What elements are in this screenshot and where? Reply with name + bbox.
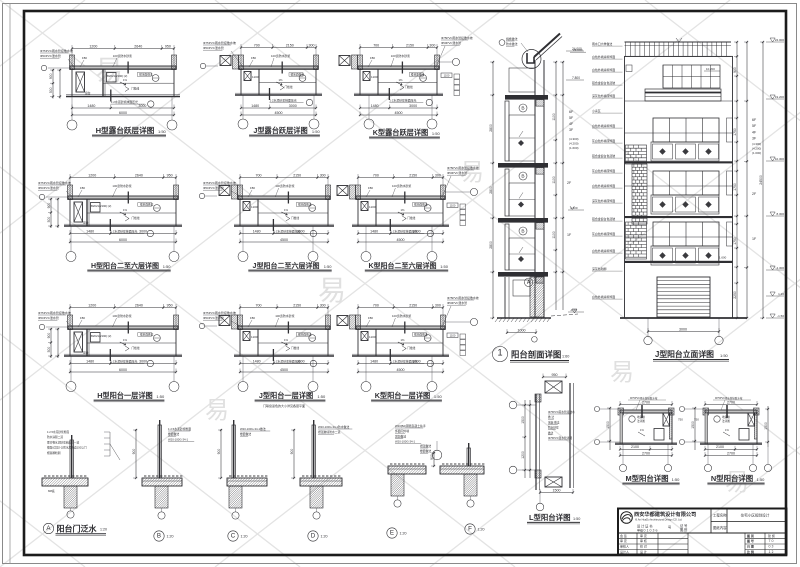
svg-text:防水涂膜二道: 防水涂膜二道	[47, 435, 63, 439]
section cut mark top	[404, 322, 406, 334]
balcony front edge	[64, 355, 182, 357]
svg-text:1%: 1%	[399, 78, 404, 82]
svg-text:门槛线: 门槛线	[132, 216, 140, 220]
svg-text:900: 900	[217, 449, 221, 455]
bottom table	[618, 538, 688, 540]
svg-text:门槛线: 门槛线	[407, 216, 415, 220]
drip note	[400, 85, 404, 90]
main wall	[534, 60, 536, 318]
section cut mark bottom	[389, 219, 391, 231]
axis circle D	[316, 508, 318, 512]
bottom dim 1000	[507, 332, 536, 334]
floor slab F	[440, 466, 484, 474]
svg-text:深灰色外墙砖饰面: 深灰色外墙砖饰面	[592, 93, 615, 98]
svg-text:易: 易	[610, 359, 634, 386]
plan detail L型阳台详图	[509, 373, 580, 524]
wall top band	[239, 66, 318, 69]
svg-text:楼地面做法: 楼地面做法	[139, 73, 153, 77]
svg-text:2800: 2800	[489, 186, 493, 194]
svg-text:审 定: 审 定	[640, 533, 647, 538]
top dim	[705, 404, 757, 406]
elevation J型阳台立面详图	[592, 38, 784, 361]
svg-text:1100: 1100	[450, 204, 456, 208]
svg-text:1100: 1100	[450, 334, 456, 338]
svg-text:300: 300	[309, 43, 315, 47]
svg-text:-1.50: -1.50	[777, 314, 784, 318]
section cut mark bottom	[109, 349, 111, 361]
axis bubble	[532, 337, 538, 343]
window x-box small	[244, 72, 251, 81]
svg-text:(1.600): (1.600)	[569, 146, 579, 150]
svg-text:B2021(2190):(2): B2021(2190):(2)	[91, 334, 111, 338]
box ladder right	[447, 333, 458, 338]
corridor right wall	[569, 383, 571, 488]
wall corner hatch right	[326, 315, 331, 330]
svg-text:1.600: 1.600	[719, 256, 727, 260]
eave detail circle	[522, 50, 541, 69]
svg-text:6000: 6000	[119, 368, 127, 372]
svg-text:1500: 1500	[764, 422, 768, 430]
dimension line bottom overall	[240, 241, 328, 243]
svg-text:1200: 1200	[88, 303, 96, 307]
svg-text:白色外墙涂料饰面: 白色外墙涂料饰面	[592, 183, 615, 188]
svg-text:W20-100G-34-1: W20-100G-34-1	[168, 437, 188, 441]
door post A	[70, 440, 73, 478]
wall top band	[68, 196, 178, 199]
top wall band	[620, 410, 672, 413]
svg-text:易: 易	[95, 55, 123, 86]
svg-text:灰白色外墙砖饰面: 灰白色外墙砖饰面	[592, 138, 615, 143]
section cut mark bottom	[272, 219, 274, 231]
svg-text:24.000: 24.000	[775, 38, 785, 42]
front edge	[700, 443, 762, 445]
company logo	[621, 512, 633, 524]
axis circle E	[397, 496, 399, 500]
label B	[154, 531, 164, 541]
slope arrow	[638, 432, 645, 436]
vertical dividers top	[710, 509, 712, 534]
top dim boxes	[543, 376, 566, 378]
wall corner hatch left	[358, 55, 363, 70]
left vertical dim MN	[609, 408, 611, 450]
wall below C	[229, 486, 242, 508]
svg-text:聚合物水泥砂浆粘结层一道: 聚合物水泥砂浆粘结层一道	[47, 440, 80, 444]
svg-text:2100: 2100	[716, 445, 724, 449]
svg-text:1:2水泥砂浆抹面压光: 1:2水泥砂浆抹面压光	[110, 229, 137, 234]
bottom dim L	[540, 492, 573, 494]
svg-text:7.800: 7.800	[572, 76, 580, 80]
svg-text:图 别: 图 别	[747, 533, 754, 538]
section cut mark top	[281, 62, 283, 74]
svg-text:做法: 做法	[548, 431, 554, 435]
svg-text:(1.600): (1.600)	[752, 151, 761, 155]
svg-text:1100: 1100	[252, 75, 259, 79]
axis bubble bottom-right	[171, 97, 173, 121]
ground line dashed right	[551, 314, 578, 316]
window x small	[663, 413, 670, 426]
sill band	[651, 246, 719, 265]
svg-text:100宽防水砂浆: 100宽防水砂浆	[113, 53, 132, 58]
dimension line bottom overall	[70, 241, 176, 243]
svg-text:楼面做法: 楼面做法	[420, 449, 431, 453]
svg-text:门槛线: 门槛线	[291, 346, 299, 350]
svg-text:Φ75PVC雨水管接散水坡: Φ75PVC雨水管接散水坡	[38, 180, 71, 185]
svg-text:1750: 1750	[733, 183, 737, 191]
sloped roof lines	[534, 34, 560, 58]
svg-text:N型阳台详图: N型阳台详图	[711, 474, 753, 483]
interior mid line	[87, 212, 176, 214]
wall corner hatch left	[70, 55, 75, 70]
beam hatch 2	[536, 168, 544, 175]
right bottom cells	[744, 533, 746, 555]
plan detail H型阳台二至六层详图	[38, 173, 182, 271]
vertical dimension left	[50, 328, 52, 358]
left wing x-box	[220, 56, 231, 66]
partition wall	[86, 329, 88, 356]
left wing x-box	[219, 316, 230, 326]
svg-text:K型阳台二至六层详图: K型阳台二至六层详图	[368, 261, 436, 270]
roof surface dashes D	[302, 475, 304, 477]
plan detail M型阳台详图	[594, 396, 680, 485]
svg-text:1:2水泥砂浆抹面压光: 1:2水泥砂浆抹面压光	[270, 98, 297, 103]
svg-text:24.000: 24.000	[572, 47, 582, 51]
wall corner hatch right	[174, 185, 179, 200]
balcony front edge	[234, 225, 334, 227]
svg-text:白色外墙涂料饰面: 白色外墙涂料饰面	[592, 123, 615, 128]
svg-text:西安华都建筑设计有限公司: 西安华都建筑设计有限公司	[634, 510, 696, 518]
window x-box small	[361, 202, 368, 211]
axis bubble left	[39, 194, 44, 199]
dimension line bottom overall	[72, 114, 174, 116]
interior door box	[654, 429, 664, 441]
detail marker circle	[519, 227, 527, 235]
partition wall	[86, 199, 88, 226]
svg-text:1%: 1%	[284, 338, 289, 342]
svg-text:楼地面做法: 楼地面做法	[411, 73, 425, 77]
drain circle	[714, 416, 720, 422]
svg-text:审 定: 审 定	[620, 538, 627, 543]
level markers	[770, 38, 775, 42]
partition small	[377, 69, 379, 95]
balcony front edge	[66, 96, 180, 98]
label E	[387, 528, 397, 538]
svg-text:铝合金窗白色蓝玻: 铝合金窗白色蓝玻	[592, 153, 615, 158]
svg-text:1500: 1500	[691, 421, 695, 429]
front edge	[615, 443, 677, 445]
svg-text:F80: F80	[80, 316, 85, 320]
axis bubbles MN	[594, 406, 599, 411]
svg-text:1100: 1100	[371, 75, 378, 79]
svg-text:4500: 4500	[280, 238, 288, 242]
svg-text:1:20: 1:20	[478, 528, 485, 532]
wall corner hatch right	[435, 55, 440, 70]
plan detail J型阳台一层详图	[199, 303, 334, 408]
svg-text:做 法: 做 法	[548, 415, 554, 419]
svg-text:700: 700	[256, 173, 262, 177]
svg-text:1: 1	[497, 348, 502, 358]
axis bubble left	[41, 65, 46, 70]
detail D	[290, 420, 352, 541]
left wing hatch	[350, 185, 356, 199]
svg-text:1480: 1480	[253, 229, 261, 233]
svg-text:E: E	[390, 530, 394, 537]
svg-text:500: 500	[47, 347, 51, 353]
svg-text:地漏做: 地漏做	[637, 415, 645, 419]
svg-text:J型阳台二至六层详图: J型阳台二至六层详图	[253, 261, 320, 270]
balcony rail band 6F	[645, 89, 721, 101]
full width transom line	[625, 185, 733, 187]
svg-text:门联窗蓝色的大小详见各层平面: 门联窗蓝色的大小详见各层平面	[263, 403, 305, 408]
svg-text:７０: ７０	[768, 539, 774, 543]
svg-text:F80: F80	[80, 186, 85, 190]
axis bubble bottom-right	[173, 226, 175, 252]
svg-text:100宽防水砂浆: 100宽防水砂浆	[271, 53, 290, 58]
svg-text:地漏做: 地漏做	[722, 415, 730, 419]
dimension line top	[241, 47, 316, 49]
door box	[91, 203, 101, 213]
svg-text:甲级０１０３６: 甲级０１０３６	[637, 527, 658, 532]
svg-text:增加做法: 增加做法	[395, 434, 406, 438]
svg-text:3000: 3000	[413, 229, 421, 233]
section cut mark bottom	[272, 349, 274, 361]
svg-text:灰白色外墙砖饰面: 灰白色外墙砖饰面	[592, 231, 615, 236]
floor drain symbol	[154, 335, 161, 342]
svg-text:J型露台跃层详图: J型露台跃层详图	[253, 126, 307, 135]
door frame post C	[232, 425, 235, 478]
svg-text:图 别: 图 别	[680, 527, 687, 532]
detail E	[387, 424, 426, 538]
balcony front edge	[352, 355, 449, 357]
svg-text:楼面做法: 楼面做法	[240, 432, 251, 436]
bottom axis bubble L	[539, 490, 541, 503]
door box	[91, 333, 101, 343]
svg-text:700: 700	[256, 303, 262, 307]
slope mark	[281, 342, 287, 345]
floor drain symbol	[154, 205, 161, 212]
svg-text:900: 900	[290, 449, 294, 455]
section cut mark bottom	[389, 349, 391, 361]
svg-text:M型阳台详图: M型阳台详图	[625, 474, 668, 483]
axis bubble right	[452, 58, 459, 65]
svg-text:H型露台跃层详图: H型露台跃层详图	[96, 125, 155, 135]
svg-text:6000: 6000	[119, 111, 127, 115]
dimension line bottom inner	[70, 233, 176, 235]
axis bubble right	[470, 188, 477, 195]
dimension line top	[70, 307, 176, 309]
left wing x-box	[339, 56, 350, 66]
svg-text:工程名称: 工程名称	[713, 513, 727, 518]
svg-text:1:50: 1:50	[440, 264, 449, 269]
svg-text:1:50: 1:50	[312, 129, 321, 134]
svg-text:8.300: 8.300	[776, 212, 784, 216]
svg-text:100宽防水砂浆: 100宽防水砂浆	[112, 313, 131, 318]
balcony front edge	[352, 225, 449, 227]
left wing x-box	[337, 316, 348, 326]
svg-text:窗台: 窗台	[83, 221, 89, 225]
interior mid line	[258, 212, 328, 214]
svg-text:K型露台跃层详图: K型露台跃层详图	[373, 128, 429, 137]
door box	[107, 73, 117, 83]
svg-text:1:50: 1:50	[317, 394, 326, 399]
right jamb strip	[727, 222, 733, 246]
svg-text:100宽防水砂浆: 100宽防水砂浆	[112, 183, 131, 188]
balcony rail storey 3	[505, 224, 509, 270]
roof railing band	[625, 41, 732, 43]
svg-text:1:50: 1:50	[757, 477, 766, 482]
svg-text:2150: 2150	[286, 43, 294, 47]
floor drain symbol	[299, 75, 306, 82]
svg-text:Φ75PVC雨水管接散水坡: Φ75PVC雨水管接散水坡	[40, 48, 73, 53]
svg-text:1%: 1%	[401, 208, 406, 212]
right dim chains	[736, 42, 738, 318]
ground line	[497, 317, 551, 319]
svg-text:900: 900	[132, 449, 136, 455]
svg-text:500: 500	[47, 217, 51, 223]
slope mark	[398, 342, 404, 345]
svg-text:1:20: 1:20	[321, 535, 328, 539]
svg-text:J型阳台一层详图: J型阳台一层详图	[259, 391, 313, 400]
svg-text:白色外墙涂料饰面: 白色外墙涂料饰面	[592, 294, 615, 299]
side walls	[69, 329, 71, 356]
wall below F	[464, 474, 477, 496]
svg-text:Φ75PVC泄水管详图: Φ75PVC泄水管详图	[548, 436, 572, 440]
axis bubble bottom-left	[242, 95, 244, 119]
dimension line bottom inner	[70, 363, 176, 365]
svg-text:900: 900	[49, 73, 53, 79]
svg-text:楼地面做法: 楼地面做法	[414, 333, 428, 337]
floor slab A	[42, 478, 88, 486]
interior mid line	[378, 82, 437, 84]
plan detail K型阳台二至六层详图	[337, 165, 479, 272]
interior mid line	[376, 212, 443, 214]
svg-text:号: 号	[668, 525, 671, 530]
side walls	[357, 199, 359, 226]
svg-text:B: B	[157, 533, 161, 540]
svg-text:M8底: M8底	[48, 489, 55, 493]
svg-text:灰白色外墙砖饰面: 灰白色外墙砖饰面	[592, 168, 615, 173]
sill band	[651, 195, 719, 214]
svg-text:Φ75PVC雨水管接散水坡: Φ75PVC雨水管接散水坡	[203, 180, 236, 185]
svg-text:1%: 1%	[279, 78, 284, 82]
svg-text:100宽防水砂浆: 100宽防水砂浆	[392, 183, 411, 188]
drip note	[125, 346, 129, 351]
svg-text:门槛线: 门槛线	[132, 346, 140, 350]
svg-text:950: 950	[552, 373, 558, 377]
svg-text:1%: 1%	[284, 208, 289, 212]
svg-text:3000: 3000	[138, 104, 146, 108]
svg-text:1:60: 1:60	[562, 355, 569, 359]
slab line 1	[625, 161, 733, 163]
svg-text:4500: 4500	[275, 111, 283, 115]
door frame post B	[158, 425, 161, 478]
left wing hatch	[350, 315, 356, 329]
svg-text:Xi.An HuaDu Architectural Desi: Xi.An HuaDu Architectural Design CO. Ltd	[635, 518, 682, 521]
axis bubbles MN	[679, 406, 684, 411]
axis bubble near detail F	[432, 450, 442, 460]
svg-text:1:20: 1:20	[100, 528, 107, 532]
svg-text:K型阳台一层详图: K型阳台一层详图	[375, 391, 431, 400]
vertical dimension left	[52, 69, 54, 99]
wall corner hatch left	[68, 315, 73, 330]
svg-text:10.200: 10.200	[706, 67, 715, 71]
section cut mark bottom	[388, 88, 390, 100]
axis bubble bottom-left	[242, 356, 244, 382]
svg-text:易: 易	[318, 275, 346, 306]
svg-text:100宽防水砂浆: 100宽防水砂浆	[392, 313, 411, 318]
svg-text:2700: 2700	[642, 451, 650, 455]
sill band	[651, 142, 719, 161]
storey windows y=222	[653, 222, 719, 246]
axis bubble left	[39, 324, 44, 329]
svg-text:2700: 2700	[727, 451, 735, 455]
svg-text:6000: 6000	[119, 238, 127, 242]
svg-text:1%: 1%	[123, 208, 128, 212]
axis bubble left J	[199, 323, 204, 328]
svg-text:地漏 做法: 地漏 做法	[548, 420, 560, 424]
svg-text:2700: 2700	[642, 400, 650, 404]
detail F	[420, 443, 485, 534]
svg-text:1:2水泥砂浆抹面压光: 1:2水泥砂浆抹面压光	[111, 99, 138, 104]
balcony rail storey 1	[505, 101, 509, 161]
svg-text:1480: 1480	[371, 104, 379, 108]
window x-box small	[363, 72, 370, 81]
svg-text:Φ50PVC泄水管: Φ50PVC泄水管	[40, 53, 61, 58]
wall corner hatch left	[68, 185, 73, 200]
dimension line bottom overall	[358, 241, 443, 243]
wall corner hatch right	[172, 55, 177, 70]
wall corner hatch left	[238, 315, 243, 330]
svg-text:2150: 2150	[409, 303, 417, 307]
svg-text:增强玻璃防水二道: 增强玻璃防水二道	[318, 430, 341, 434]
axis bubbles L	[509, 401, 517, 409]
interior mid line	[376, 342, 443, 344]
partition small	[257, 199, 259, 226]
svg-text:300: 300	[320, 173, 326, 177]
svg-text:F80: F80	[250, 186, 255, 190]
svg-text:1:50: 1:50	[158, 129, 167, 134]
balcony front edge	[235, 94, 322, 96]
svg-text:(4.300): (4.300)	[752, 142, 761, 146]
right dim chain of N	[767, 406, 769, 447]
left wing hatch	[233, 55, 239, 69]
svg-text:950: 950	[167, 173, 173, 177]
svg-text:Φ50PVC泄水管: Φ50PVC泄水管	[447, 170, 467, 175]
svg-text:防水做法: 防水做法	[506, 41, 518, 46]
window x-box small	[243, 332, 250, 341]
svg-text:(4.300): (4.300)	[569, 137, 579, 141]
right jamb strip	[727, 118, 733, 142]
wall corner hatch right	[174, 315, 179, 330]
wall top band	[68, 326, 178, 329]
axis bubble right of N	[764, 464, 771, 471]
section cut mark top	[127, 62, 129, 74]
svg-text:100宽防水砂浆: 100宽防水砂浆	[275, 183, 294, 188]
section cut mark top	[127, 322, 129, 334]
dimension line top	[240, 177, 328, 179]
beam hatch 4	[536, 277, 544, 284]
left wing x-box	[219, 186, 230, 196]
beam hatch 3	[536, 223, 544, 230]
svg-text:B2021(2190):(2): B2021(2190):(2)	[91, 204, 111, 208]
svg-text:2150: 2150	[406, 43, 414, 47]
plan detail J型露台跃层详图	[200, 40, 322, 137]
svg-text:D: D	[311, 533, 316, 540]
section cut mark bottom	[269, 88, 271, 100]
6F corner box	[626, 65, 632, 72]
plan detail N型阳台详图	[679, 396, 765, 485]
bottom x-box	[545, 477, 562, 487]
garage door	[657, 277, 710, 317]
